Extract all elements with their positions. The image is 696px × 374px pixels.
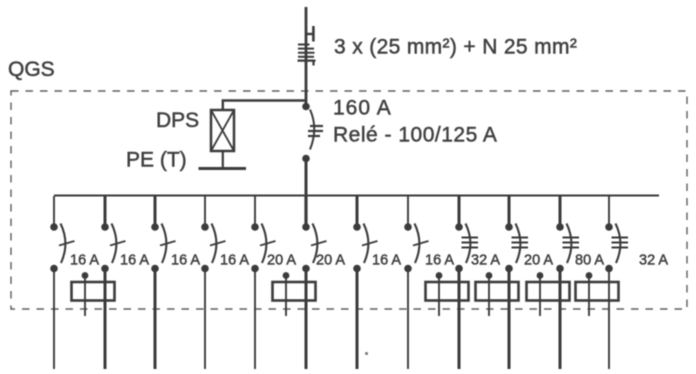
svg-text:DPS: DPS bbox=[156, 109, 199, 132]
svg-text:16 A: 16 A bbox=[171, 253, 200, 269]
svg-text:16 A: 16 A bbox=[120, 253, 149, 269]
svg-text:16 A: 16 A bbox=[372, 253, 401, 269]
svg-text:16 A: 16 A bbox=[220, 253, 249, 269]
svg-text:3 x (25 mm²) + N 25 mm²: 3 x (25 mm²) + N 25 mm² bbox=[334, 36, 577, 59]
svg-text:160 A: 160 A bbox=[333, 97, 392, 120]
svg-text:QGS: QGS bbox=[8, 58, 55, 81]
svg-text:20 A: 20 A bbox=[267, 253, 296, 269]
svg-text:32 A: 32 A bbox=[639, 253, 668, 269]
svg-text:PE (T): PE (T) bbox=[126, 149, 187, 172]
svg-text:16 A: 16 A bbox=[70, 253, 99, 269]
svg-text:16 A: 16 A bbox=[425, 253, 454, 269]
svg-text:80 A: 80 A bbox=[575, 253, 604, 269]
svg-text:Relé - 100/125 A: Relé - 100/125 A bbox=[333, 124, 497, 147]
svg-text:20 A: 20 A bbox=[316, 253, 345, 269]
svg-text:20 A: 20 A bbox=[524, 253, 553, 269]
svg-text:32 A: 32 A bbox=[471, 253, 500, 269]
